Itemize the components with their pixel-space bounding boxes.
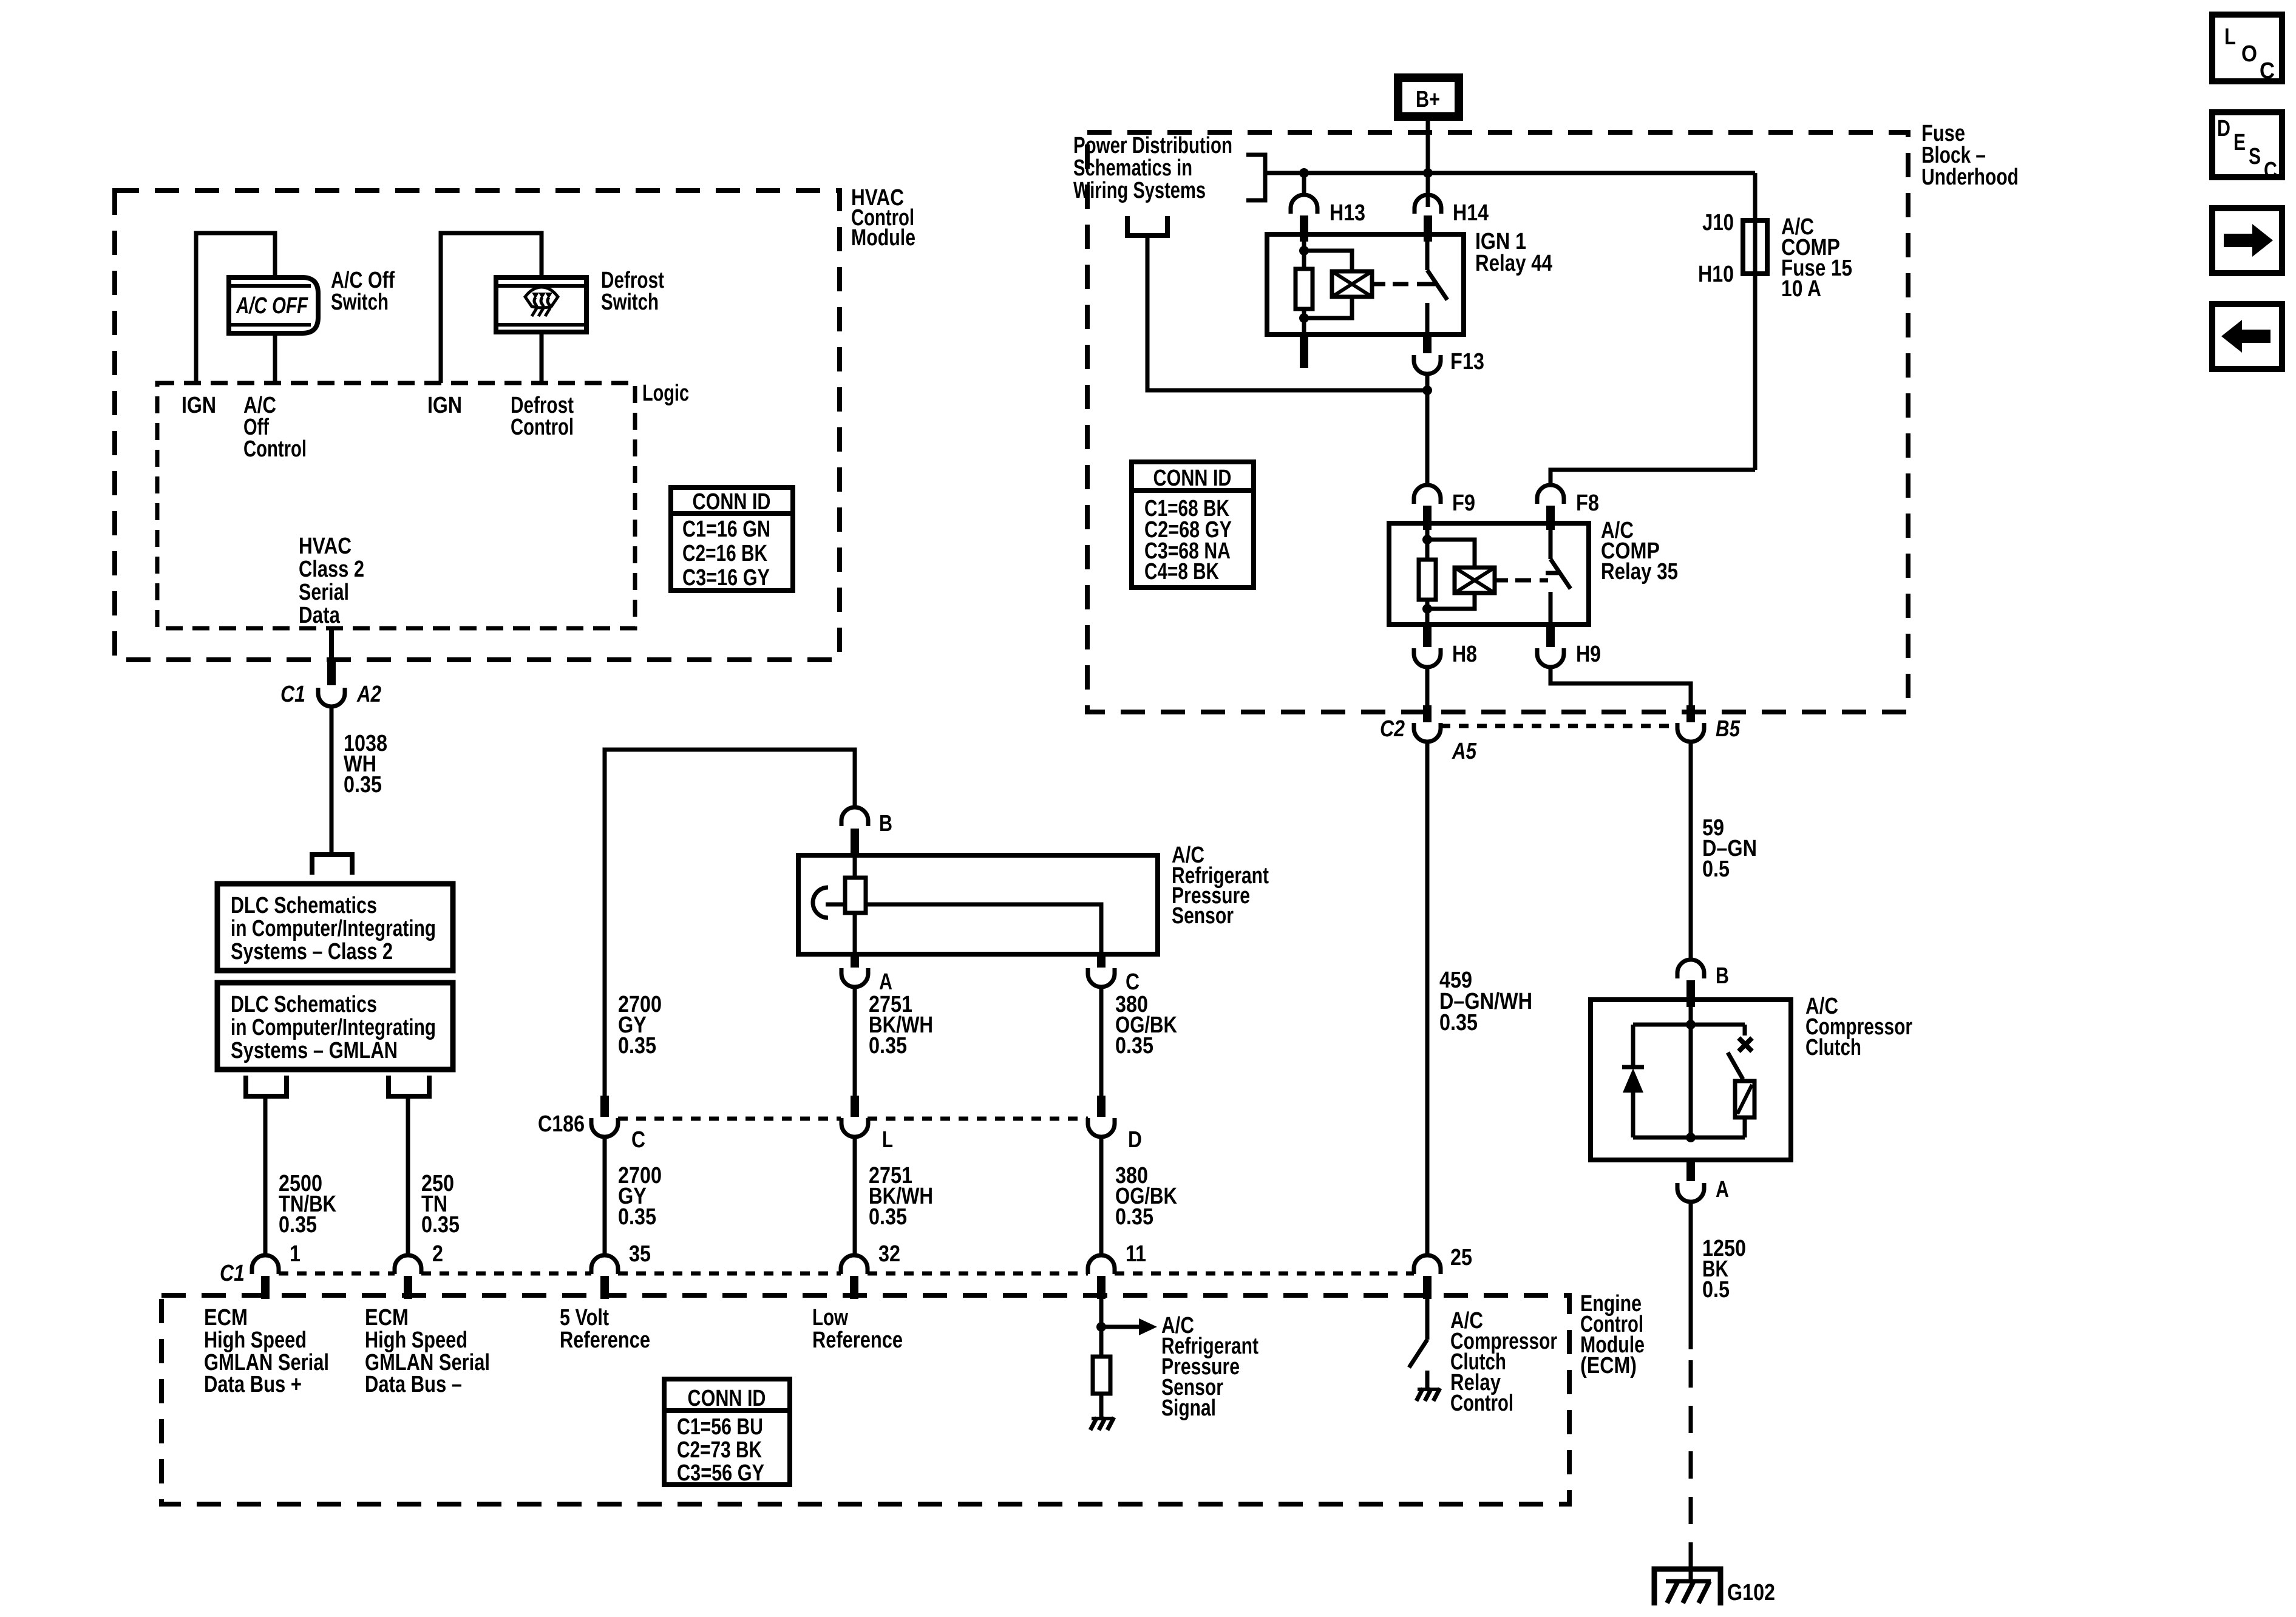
connector D cup [1088,1118,1115,1137]
linkage dash relay 35 [1515,578,1548,583]
svg-text:C186: C186 [538,1111,585,1137]
arrow A/C pressure signal [1101,1318,1157,1335]
connector row C2-B5 dashed line [1441,724,1677,728]
label A/C COMP Relay 35 [1601,518,1678,585]
connector pin 35 dome [591,1255,618,1274]
connector H13 dome [1291,195,1317,214]
resistor relay 35 [1419,560,1436,600]
connector H9 cup [1537,648,1564,667]
svg-text:HVAC: HVAC [299,534,352,559]
wire 380 OG/BK lower [1099,1137,1104,1255]
svg-text:E: E [2233,130,2246,155]
svg-text:0.35: 0.35 [1115,1204,1153,1230]
sensor internal wire B through resistor [853,855,857,954]
icon right-arrow button [2212,208,2282,273]
ground ECM pin 11 [1090,1417,1114,1430]
svg-text:0.35: 0.35 [618,1204,656,1230]
svg-text:11: 11 [1126,1241,1146,1267]
Fuse Block - Underhood dashed box [1087,132,1908,712]
svg-text:5 Volt: 5 Volt [560,1305,609,1331]
coil stub relay 35 [1495,578,1508,583]
svg-text:25: 25 [1450,1245,1472,1270]
clutch switch X marker [1739,1038,1752,1051]
B+ terminal [1398,78,1459,117]
label 2700 GY 0.35 lower [618,1163,662,1230]
clutch switch blade [1728,1053,1743,1079]
switch clutch relay control [1409,1340,1427,1368]
pin C2 stub [1423,705,1432,722]
svg-text:Signal: Signal [1161,1395,1216,1421]
icon DESC button [2212,112,2282,183]
clutch internal top [1689,1000,1693,1137]
junction clutch top [1686,1020,1696,1029]
svg-text:Clutch: Clutch [1805,1035,1861,1060]
label 5 Volt Reference [560,1305,650,1353]
svg-text:O: O [2241,41,2257,67]
svg-text:0.5: 0.5 [1702,1277,1730,1303]
svg-text:Control: Control [243,436,307,462]
svg-text:0.35: 0.35 [421,1212,460,1238]
label Low Reference [812,1305,903,1353]
svg-text:Wiring Systems: Wiring Systems [1073,178,1206,203]
svg-text:F13: F13 [1450,349,1484,375]
svg-text:32: 32 [878,1241,900,1267]
svg-text:Reference: Reference [812,1327,903,1353]
wire A/C off switch lower [273,333,277,383]
relay 35 coil loop [1427,540,1475,609]
wire 459 D-GN/WH [1425,742,1430,1255]
wire H9 to B5 [1550,667,1691,705]
Logic dashed box [157,383,635,628]
wire pin 11 internal [1099,1299,1104,1357]
pin B clutch stub [1686,980,1695,1007]
svg-text:High Speed: High Speed [204,1327,307,1353]
pin H9 stub [1546,625,1555,647]
svg-text:H9: H9 [1576,642,1601,667]
svg-text:B5: B5 [1716,716,1741,742]
clutch switch branch [1743,1025,1747,1036]
defrost icon [525,287,558,316]
wire defrost switch lower [540,332,544,383]
svg-text:Logic: Logic [642,381,689,406]
label 250 TN 0.35 [421,1171,460,1238]
label ECM GMLAN bus + [204,1305,329,1397]
svg-text:C1: C1 [220,1261,245,1286]
junction relay44 coil top [1299,246,1309,256]
svg-text:A: A [879,969,892,995]
svg-text:0.35: 0.35 [279,1212,317,1238]
ground ECM pin 25 [1416,1388,1440,1401]
off-page bracket to DLC Class 2 [312,855,352,875]
pin H14 stub [1424,215,1432,242]
label 380 OG/BK 0.35 lower [1115,1163,1177,1230]
A/C Compressor Clutch box [1591,1000,1791,1160]
pin L stub [851,1096,859,1117]
CONN ID table ECM [664,1379,790,1486]
off-page bracket GMLAN bus + [246,1076,287,1096]
label 380 OG/BK 0.35 upper [1115,992,1177,1059]
pin 1 stub [261,1276,270,1299]
pin A stub [851,954,859,968]
svg-text:IGN: IGN [427,393,462,418]
wire F13 to F9 [1425,374,1430,485]
clutch internal bottom rail [1633,1136,1745,1140]
svg-text:Power Distribution: Power Distribution [1073,133,1232,158]
pin relay44 coil lower stub [1300,334,1308,368]
wire 59 D-GN [1689,742,1693,960]
wire H8 to C2 [1425,667,1430,705]
junction relay35 coil bottom [1422,604,1432,614]
coil stub relay 44 [1372,282,1385,286]
pin F9 stub [1423,506,1432,530]
svg-text:10 A: 10 A [1781,276,1821,302]
svg-text:Relay 35: Relay 35 [1601,559,1678,585]
wire B+ down [1426,117,1430,207]
connector row C1 ECM dashed line [279,1272,1414,1276]
svg-text:0.5: 0.5 [1702,856,1730,882]
label Defrost Control [511,393,574,440]
wire A/C off switch IGN branch [196,233,275,383]
connector pin 1 dome [252,1255,279,1274]
pin H8 stub [1423,625,1432,647]
connector B clutch dome [1677,960,1704,978]
svg-text:2: 2 [432,1241,443,1267]
A/C Off Switch SW1 [229,277,318,333]
CONN ID table fuse block [1132,462,1254,588]
svg-text:C2=16 BK: C2=16 BK [682,541,767,566]
connector L cup [841,1118,868,1137]
wire 2751 BK/WH lower [853,1137,857,1255]
wire 1038 WH [330,707,334,855]
svg-text:C2=73 BK: C2=73 BK [677,1437,762,1463]
svg-text:A2: A2 [356,682,381,707]
svg-text:L: L [2224,24,2236,50]
switch relay 35 [1546,523,1571,625]
pin 25 stub [1423,1276,1432,1299]
clutch thermal resistor [1735,1081,1754,1117]
label A/C Refrigerant Pressure Sensor [1172,842,1269,929]
junction F13 return [1422,385,1432,395]
wire 2700 GY top loop to sensor B [605,750,855,1096]
pin A clutch stub [1686,1160,1695,1181]
svg-text:DLC Schematics: DLC Schematics [231,893,377,918]
HVAC Control Module dashed box [115,191,840,660]
svg-text:1: 1 [290,1241,301,1267]
svg-text:J10: J10 [1702,210,1734,236]
pin B5 stub [1686,705,1695,722]
pin F8 stub [1546,506,1555,530]
label 2500 TN/BK 0.35 [279,1171,336,1238]
junction rail H13 [1299,168,1309,178]
connector pin 32 dome [841,1255,868,1274]
connector A cup [841,968,868,987]
pin 11 stub [1097,1276,1106,1299]
wire defrost switch IGN branch [441,233,542,383]
svg-text:F8: F8 [1576,490,1599,516]
svg-text:H10: H10 [1698,262,1734,287]
ECM dashed box [161,1295,1569,1504]
off-page bracket GMLAN bus - [389,1076,429,1096]
linkage dash relay 44 [1393,282,1425,286]
coil relay 44 [1332,271,1372,297]
svg-text:C1=16 GN: C1=16 GN [682,517,770,542]
svg-text:C1=56 BU: C1=56 BU [677,1414,763,1440]
svg-text:G102: G102 [1727,1580,1775,1605]
svg-text:Sensor: Sensor [1172,903,1234,929]
svg-text:Systems – GMLAN: Systems – GMLAN [231,1038,398,1063]
svg-text:C: C [2260,58,2275,84]
junction rail B+ [1423,168,1433,178]
label A/C Off Control [243,393,307,462]
icon left-arrow button [2212,304,2282,369]
svg-text:Serial: Serial [299,580,349,605]
svg-text:0.35: 0.35 [618,1033,656,1059]
svg-text:CONN ID: CONN ID [693,489,771,515]
svg-text:Data Bus +: Data Bus + [204,1372,302,1397]
svg-text:A: A [1716,1177,1729,1202]
svg-text:B: B [1716,963,1729,989]
svg-text:Schematics in: Schematics in [1073,155,1192,181]
junction relay44 coil bottom [1299,313,1309,323]
label 1038 WH 0.35 [344,731,387,798]
pin F13 stub [1423,334,1432,353]
label Defrost Switch [601,268,664,315]
label A/C COMP Fuse 15 10 A [1781,214,1852,302]
connector F9 dome [1414,485,1441,504]
svg-text:Data Bus –: Data Bus – [365,1372,462,1397]
svg-text:D: D [2217,116,2230,141]
svg-text:(ECM): (ECM) [1580,1353,1637,1378]
svg-text:C4=8 BK: C4=8 BK [1144,559,1219,585]
connector H8 cup [1414,648,1441,667]
relay 44 coil loop [1304,251,1352,318]
svg-text:D: D [1128,1127,1142,1153]
wire resistor to ground [1099,1394,1104,1417]
label 2700 GY 0.35 upper [618,992,662,1059]
label Power Distribution Schematics in Wiring Systems [1073,133,1232,203]
connector F13 cup [1414,355,1441,374]
svg-text:0.35: 0.35 [869,1033,907,1059]
A/C refrigerant pressure sensor box [798,855,1158,954]
resistor pin 11 [1093,1357,1110,1394]
pin C stub [1097,954,1106,968]
relay 44 coil branch [1302,242,1306,334]
svg-text:H13: H13 [1330,200,1365,226]
connector B5 cup [1677,723,1704,742]
svg-text:ECM: ECM [365,1305,409,1331]
svg-text:C: C [1126,969,1140,995]
connector C1/A2 cup [318,688,345,707]
label 1250 BK 0.5 [1702,1236,1746,1303]
fuse A/C COMP Fuse 15 [1743,220,1767,274]
svg-text:Data: Data [299,603,341,628]
svg-text:Underhood: Underhood [1921,164,2019,190]
connector A clutch cup [1677,1183,1704,1202]
svg-text:0.35: 0.35 [1439,1010,1478,1036]
junction relay35 coil top [1422,535,1432,544]
ground G102 [1654,1554,1720,1605]
svg-text:ECM: ECM [204,1305,248,1331]
relay IGN1 Relay 44 box [1267,234,1464,334]
Defrost Switch SW2 [496,277,586,332]
label HVAC Control Module [851,185,915,251]
svg-text:Low: Low [812,1305,848,1331]
svg-text:Module: Module [851,225,915,251]
wire 380 OG/BK upper [1099,987,1104,1096]
resistor relay 44 [1296,269,1313,309]
connector F8 dome [1537,485,1564,504]
junction pin 11 [1096,1322,1106,1332]
connector row C186 dashed line [618,1117,1088,1121]
svg-text:0.35: 0.35 [344,772,382,798]
connector pin 25 dome [1414,1255,1441,1274]
svg-text:0.35: 0.35 [869,1204,907,1230]
box DLC Schematics GMLAN [217,983,453,1070]
connector C cup [1088,968,1115,987]
label Engine Control Module (ECM) [1580,1291,1645,1378]
svg-text:Reference: Reference [560,1327,650,1353]
switch lower contact stub [1425,1371,1430,1388]
label 59 D-GN 0.5 [1702,815,1757,882]
svg-text:in Computer/Integrating: in Computer/Integrating [231,916,436,941]
svg-text:Control: Control [511,415,574,440]
svg-text:F9: F9 [1452,490,1475,516]
connector C2/A5 cup [1414,723,1441,742]
label Fuse Block - Underhood [1921,121,2019,190]
pin 2 stub [404,1276,412,1299]
svg-text:C1: C1 [280,682,305,707]
coil relay 35 [1455,568,1495,593]
svg-text:CONN ID: CONN ID [688,1386,766,1411]
label IGN 1 Relay 44 [1475,229,1552,276]
label ECM GMLAN bus - [365,1305,490,1397]
sensor internal wire arc to resistor [826,903,845,907]
wire 2751 BK/WH upper [853,987,857,1096]
wire 1250 BK hidden dashed [1689,1360,1693,1554]
connector C1/A2 pin [327,660,336,685]
pin 35 stub [600,1276,609,1299]
svg-text:Switch: Switch [601,290,659,315]
clutch internal top rail [1633,1023,1745,1027]
pin H13 stub [1300,215,1308,242]
wire 1250 BK solid [1689,1202,1693,1349]
switch relay 44 [1422,234,1447,334]
svg-text:Systems – Class 2: Systems – Class 2 [231,939,393,964]
pin B stub [851,829,859,855]
svg-text:H8: H8 [1452,642,1477,667]
wire fuse to F8 [1550,470,1755,485]
svg-text:0.35: 0.35 [1115,1033,1153,1059]
off-page bracket to power distribution return [1127,216,1167,236]
svg-text:CONN ID: CONN ID [1153,466,1232,491]
svg-text:L: L [882,1127,893,1153]
junction clutch bottom [1686,1133,1696,1142]
relay A/C COMP Relay 35 box [1389,523,1589,625]
sensor internal C-arc [813,887,828,918]
wire power rail [1265,171,1755,175]
svg-text:H14: H14 [1453,200,1489,226]
svg-text:Class 2: Class 2 [299,557,364,582]
svg-text:Switch: Switch [331,290,389,315]
diode clutch [1622,1025,1644,1137]
svg-text:in Computer/Integrating: in Computer/Integrating [231,1015,436,1040]
svg-text:C3=16 GY: C3=16 GY [682,565,770,591]
svg-text:B+: B+ [1416,87,1440,112]
bracket power distribution [1246,155,1265,200]
sensor internal resistor [845,878,866,913]
svg-text:C: C [2264,158,2277,183]
pin D stub [1097,1096,1106,1117]
wire 2700 GY lower [603,1137,607,1255]
label HVAC Class 2 Serial Data [299,534,364,628]
relay 35 coil branch [1425,530,1430,625]
box DLC Schematics Class 2 [217,884,453,971]
svg-text:S: S [2249,144,2261,169]
wire return to F13 junction [1147,236,1427,390]
pin C186 stub [600,1096,609,1117]
svg-text:C3=56 GY: C3=56 GY [677,1460,764,1486]
svg-text:C2: C2 [1380,716,1405,742]
wire H13 drop [1302,173,1306,195]
svg-text:B: B [879,811,892,836]
svg-text:A/C OFF: A/C OFF [236,293,308,319]
svg-text:IGN: IGN [182,393,216,418]
wire HVAC serial data stub [329,628,334,660]
connector C186 cup [591,1118,618,1137]
svg-text:35: 35 [629,1241,651,1267]
wire 2500 TN/BK [263,1096,268,1255]
label A/C Compressor Clutch Relay Control [1450,1308,1557,1416]
icon LOC button [2212,15,2282,84]
wire pin 25 internal [1425,1299,1430,1340]
svg-text:A5: A5 [1452,739,1477,764]
label A/C Refrigerant Pressure Sensor Signal [1161,1313,1258,1421]
svg-text:High Speed: High Speed [365,1327,467,1353]
connector B dome [841,807,868,826]
label 459 D-GN/WH 0.35 [1439,968,1532,1036]
clutch resistor to bottom [1743,1117,1747,1137]
wire rail to fuse [1753,173,1758,470]
sensor internal wire to C [866,904,1101,954]
label 2751 BK/WH 0.35 upper [869,992,933,1059]
pin 32 stub [850,1276,858,1299]
label A/C Off Switch [331,268,395,315]
connector pin 2 dome [395,1255,421,1274]
label 2751 BK/WH 0.35 lower [869,1163,933,1230]
svg-text:Relay 44: Relay 44 [1475,251,1552,276]
svg-text:DLC Schematics: DLC Schematics [231,992,377,1017]
svg-text:Control: Control [1450,1391,1513,1416]
svg-text:C: C [631,1127,645,1153]
label A/C Compressor Clutch [1805,994,1912,1060]
connector pin 11 dome [1088,1255,1115,1274]
wire 250 TN [406,1096,410,1255]
CONN ID table HVAC [671,487,793,591]
connector H14 dome [1415,195,1441,214]
